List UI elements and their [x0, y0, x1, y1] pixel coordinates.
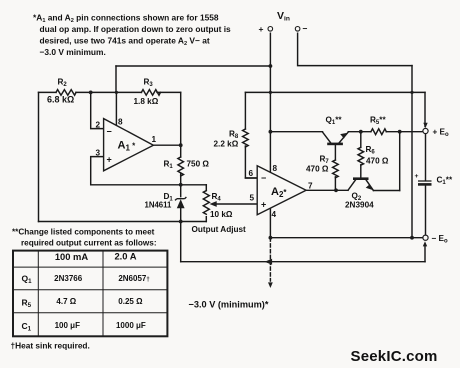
svg-text:+: + — [415, 173, 419, 180]
svg-text:+: + — [261, 200, 266, 210]
svg-text:470 Ω: 470 Ω — [306, 165, 329, 174]
svg-text:required output current as fol: required output current as follows: — [21, 239, 157, 248]
svg-text:2N3904: 2N3904 — [345, 201, 374, 210]
svg-text:2N6057†: 2N6057† — [118, 274, 149, 283]
svg-text:−3.0 V (minimum)*: −3.0 V (minimum)* — [189, 300, 269, 310]
svg-text:†Heat sink required.: †Heat sink required. — [11, 341, 90, 351]
svg-text:−: − — [107, 127, 112, 137]
svg-text:0.25 Ω: 0.25 Ω — [118, 297, 143, 306]
svg-text:*A1 and A2 pin connections sh: *A1 and A2 pin connections shown are for… — [33, 13, 219, 25]
svg-text:5: 5 — [250, 194, 255, 203]
svg-text:4: 4 — [272, 210, 277, 219]
svg-text:−: − — [303, 24, 308, 34]
svg-text:8: 8 — [273, 164, 278, 173]
svg-text:dual op amp. If operation down: dual op amp. If operation down to zero o… — [40, 24, 232, 34]
svg-text:+: + — [107, 155, 112, 165]
svg-text:4.7 Ω: 4.7 Ω — [56, 297, 76, 306]
svg-text:Output Adjust: Output Adjust — [192, 225, 247, 234]
svg-text:1000 μF: 1000 μF — [116, 321, 146, 330]
svg-text:100 mA: 100 mA — [55, 251, 89, 262]
svg-text:7: 7 — [308, 182, 313, 191]
svg-text:+: + — [259, 24, 264, 34]
svg-text:1: 1 — [152, 135, 157, 144]
svg-text:100 μF: 100 μF — [55, 321, 80, 330]
svg-text:750 Ω: 750 Ω — [187, 160, 210, 169]
svg-text:SeekIC.com: SeekIC.com — [351, 348, 438, 365]
svg-text:1.8 kΩ: 1.8 kΩ — [134, 97, 159, 106]
svg-text:470 Ω: 470 Ω — [366, 157, 389, 166]
svg-text:−3.0 V minimum.: −3.0 V minimum. — [40, 47, 106, 57]
svg-text:2.2 kΩ: 2.2 kΩ — [214, 140, 239, 149]
svg-text:−: − — [261, 173, 266, 183]
svg-text:2: 2 — [96, 121, 101, 130]
svg-text:**Change listed components to: **Change listed components to meet — [12, 228, 155, 237]
svg-text:3: 3 — [96, 149, 101, 158]
svg-text:6: 6 — [249, 169, 254, 178]
svg-text:2.0 A: 2.0 A — [114, 251, 136, 262]
svg-text:10 kΩ: 10 kΩ — [210, 210, 233, 219]
svg-text:1N4611: 1N4611 — [145, 201, 173, 210]
svg-text:6.8 kΩ: 6.8 kΩ — [47, 95, 74, 105]
svg-text:2N3766: 2N3766 — [54, 274, 83, 283]
svg-text:8: 8 — [118, 118, 123, 127]
